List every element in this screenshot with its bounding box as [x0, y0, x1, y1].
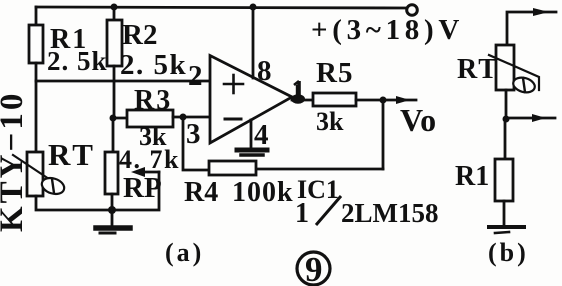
svg-text:2. 5k: 2. 5k	[47, 46, 108, 76]
svg-text:(b): (b)	[488, 238, 529, 267]
wire left column upper (rail to R1)	[35, 7, 38, 25]
wire R1 (b) bottom	[503, 201, 506, 226]
wire Vo arrow	[383, 96, 416, 104]
circuit b: wire top arrow	[507, 8, 556, 45]
resistor R1 (b)	[495, 159, 513, 201]
wire left column to RT	[35, 81, 38, 152]
node output junction	[380, 97, 387, 104]
pin label 1	[294, 81, 299, 98]
svg-text:KTY−10: KTY−10	[0, 91, 30, 232]
thermistor RT	[13, 152, 66, 197]
wire pin 4 to ground	[250, 120, 253, 148]
svg-text:RP: RP	[123, 172, 162, 204]
figure number 9	[297, 250, 330, 286]
wire R5 right to output node	[356, 99, 383, 102]
svg-text:100k: 100k	[232, 177, 294, 208]
node pin8 rail junction	[250, 4, 257, 11]
svg-text:R5: R5	[316, 57, 353, 89]
wire RP wiper loop	[112, 172, 159, 210]
svg-text:2: 2	[188, 60, 203, 92]
op-amp U1 triangle	[210, 56, 292, 144]
node R2 top junction	[111, 4, 118, 11]
svg-text:8: 8	[257, 55, 272, 87]
wire R3 right lead	[173, 116, 210, 119]
pin 1 tick	[296, 86, 298, 100]
wire R2 top stub	[113, 7, 116, 20]
fraction slash	[316, 196, 341, 225]
wire RT bottom to ground junction	[36, 196, 112, 210]
wire mid arrow (b)	[506, 114, 555, 122]
svg-text:R3: R3	[134, 85, 172, 116]
resistor R1	[29, 25, 43, 63]
svg-text:(a): (a)	[165, 238, 204, 267]
ground (b)	[489, 227, 524, 233]
ground (op-amp pin 4)	[237, 150, 267, 155]
svg-text:4: 4	[254, 119, 269, 151]
svg-text:4. 7k: 4. 7k	[119, 145, 180, 174]
node inverting input junction	[180, 114, 187, 121]
svg-text:3k: 3k	[316, 107, 344, 136]
svg-text:RT: RT	[48, 137, 96, 172]
svg-text:R4: R4	[184, 177, 218, 208]
wire feedback bottom	[256, 168, 383, 171]
wire top rail	[36, 7, 407, 8]
wire R3 left lead	[113, 117, 127, 120]
svg-text:RT: RT	[457, 54, 499, 85]
svg-text:2LM158: 2LM158	[341, 198, 439, 228]
node divider junction (b)	[503, 116, 510, 123]
potentiometer RP	[105, 152, 159, 194]
wire R1 bottom to main node	[35, 63, 38, 81]
svg-text:2. 5k: 2. 5k	[120, 49, 187, 81]
ground (main)	[96, 210, 130, 233]
node ground junction	[108, 206, 116, 214]
svg-text:+(3~18)V: +(3~18)V	[311, 14, 464, 46]
node output vertex	[291, 94, 305, 104]
svg-text:R1: R1	[455, 161, 489, 192]
wire inverting node down to R4	[183, 117, 209, 170]
svg-text:1: 1	[295, 198, 309, 229]
wire R2 bottom column crossing to R3 node	[113, 66, 116, 118]
resistor R3	[127, 110, 173, 127]
svg-text:Vo: Vo	[400, 102, 436, 138]
wire node to R1 (b)	[504, 119, 507, 159]
resistor R4	[209, 161, 256, 175]
wire feedback down	[382, 100, 385, 169]
node R3 left junction	[110, 115, 117, 122]
wire RT(b) to node	[505, 90, 508, 119]
wire column down to RP	[112, 118, 115, 152]
svg-text:3: 3	[186, 118, 201, 150]
wire output pin 1	[292, 99, 313, 102]
wire RP bottom	[111, 194, 114, 210]
label 1/2LM158	[295, 198, 439, 229]
svg-text:9: 9	[305, 250, 323, 286]
power terminal	[407, 5, 418, 16]
svg-text:R2: R2	[122, 19, 157, 51]
resistor R5	[313, 93, 356, 106]
wire pin 8 supply	[252, 7, 255, 78]
wire noninverting input (y=81)	[36, 80, 210, 83]
resistor R2	[107, 20, 122, 66]
thermistor RT (b)	[489, 45, 539, 95]
